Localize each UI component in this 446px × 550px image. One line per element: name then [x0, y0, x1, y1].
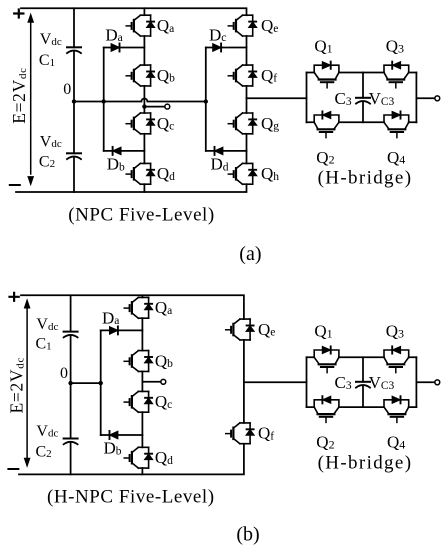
svg-text:C2: C2 — [39, 153, 55, 170]
svg-text:Qd: Qd — [155, 448, 173, 467]
wire: C2 to negative rail (a) — [73, 157, 75, 192]
junction: neutral at clamp leg 2 (a) — [204, 99, 208, 103]
minus terminal (a) — [10, 184, 20, 186]
wire: Qd to rail (a) — [143, 184, 145, 192]
svg-text:Q1: Q1 — [314, 37, 332, 56]
wire: H-bridge top row (a) — [307, 72, 417, 74]
svg-text:Q3: Q3 — [386, 322, 404, 341]
svg-text:Q2: Q2 — [316, 433, 334, 452]
wire: negative DC rail (a) — [16, 184, 247, 192]
wire: Qb to Qc (a) — [143, 86, 145, 113]
wire: bus to C1 (a) — [73, 8, 75, 47]
terminal: AC output (b) — [435, 380, 440, 385]
svg-text:Qe: Qe — [258, 320, 275, 339]
wire: neutral 0 line (b) — [71, 382, 101, 384]
transistor Q3 (b) (IGBT with antiparallel diode) — [384, 346, 409, 372]
svg-text:Qa: Qa — [157, 16, 174, 35]
wire: neutral 0 line with hop over leg (a) — [74, 99, 206, 102]
junction: neutral at capacitor midpoint (a) — [72, 99, 76, 103]
wire: H-bridge left rail (b) — [306, 357, 308, 407]
transistor Qe (b) (IGBT with antiparallel diode) — [226, 319, 255, 340]
wire: mid rail upper (a) — [362, 73, 364, 98]
transistor Qb (a) (IGBT with antiparallel diode) — [126, 65, 155, 86]
wire: H-bridge bottom row (b) — [307, 406, 417, 408]
transistor Qc (a) (IGBT with antiparallel diode) — [126, 113, 155, 134]
transistor Qd (a) (IGBT with antiparallel diode) — [126, 163, 155, 184]
H-bridge of figure (a) — [247, 37, 440, 189]
wire: input to H-bridge (a) — [247, 97, 307, 99]
svg-text:C1: C1 — [39, 52, 55, 69]
diode Da (b) — [110, 326, 118, 334]
wire: Db branch (a) — [104, 150, 145, 152]
svg-text:Qc: Qc — [157, 114, 174, 133]
wire: Qa to Qb (b) — [141, 318, 143, 350]
capacitor C2 (a) — [67, 153, 81, 159]
wire: clamp rail leg 2 (a) — [205, 48, 207, 151]
dimension arrow E=2Vdc (a) — [30, 21, 32, 174]
transistor Q1 (a) (IGBT with antiparallel diode) — [314, 62, 339, 88]
capacitor C1 (b) — [64, 332, 78, 338]
wire: Dc branch (a) — [206, 47, 247, 49]
wire: leg 1 output stub (a) — [144, 106, 165, 108]
svg-text:E=2Vdc: E=2Vdc — [9, 67, 29, 124]
svg-text:0: 0 — [60, 365, 68, 382]
capacitor C3 (a) — [356, 98, 370, 104]
svg-text:Qf: Qf — [258, 424, 274, 443]
wire: Qc to Qd (b) — [141, 412, 143, 447]
junction: neutral at clamp leg 1 (a) — [102, 99, 106, 103]
terminal: leg output (b) — [161, 379, 166, 384]
wire: Qd to rail (b) — [141, 468, 143, 474]
wire: bus to C1 (b) — [70, 295, 72, 331]
svg-text:C2: C2 — [36, 443, 52, 460]
wire: clamp rail (b) — [100, 330, 102, 435]
wire: Qf to Qg (a) — [246, 86, 248, 113]
svg-text:Qe: Qe — [261, 16, 278, 35]
wire: C2 to negative rail (b) — [70, 442, 72, 474]
wire: mid rail upper (b) — [362, 357, 364, 382]
wire: positive DC rail (b) — [21, 295, 244, 319]
svg-text:C3: C3 — [335, 373, 352, 392]
wire: H-bridge left rail (a) — [306, 73, 308, 123]
svg-text:(b): (b) — [236, 524, 259, 546]
svg-text:Vdc: Vdc — [40, 133, 62, 150]
svg-text:0: 0 — [63, 81, 71, 98]
figure (a): NPC Five-Level inverter with H-bridge — [9, 8, 279, 265]
svg-text:Q1: Q1 — [314, 322, 332, 341]
wire: H-bridge right rail (a) — [415, 73, 417, 123]
svg-text:Qc: Qc — [155, 392, 172, 411]
transistor Qf (b) (IGBT with antiparallel diode) — [226, 423, 255, 444]
wire: positive DC rail (a) — [21, 8, 247, 15]
transistor Qc (b) (IGBT with antiparallel diode) — [124, 391, 153, 412]
wire: Qb to Qc (b) — [141, 371, 143, 391]
wire: Qe to Qf (a) — [246, 36, 248, 65]
junction: neutral at clamp rail (b) — [99, 381, 103, 385]
transistor Q4 (a) (IGBT with antiparallel diode) — [384, 111, 409, 137]
svg-text:Qb: Qb — [157, 66, 175, 85]
wire: mid rail lower (a) — [362, 102, 364, 123]
wire: C1 to C2 (b) — [70, 335, 72, 438]
figure (b): H-NPC Five-Level inverter with H-bridge — [7, 293, 276, 546]
svg-text:VC3: VC3 — [369, 373, 395, 392]
transistor Qh (a) (IGBT with antiparallel diode) — [228, 163, 256, 184]
svg-text:E=2Vdc: E=2Vdc — [7, 357, 27, 414]
transistor Qg (a) (IGBT with antiparallel diode) — [228, 113, 256, 134]
svg-text:(H-bridge): (H-bridge) — [318, 168, 413, 189]
wire: H-bridge right rail (b) — [415, 357, 417, 407]
transistor Q4 (b) (IGBT with antiparallel diode) — [384, 396, 409, 422]
svg-text:Da: Da — [105, 25, 122, 44]
svg-text:Vdc: Vdc — [36, 423, 58, 440]
svg-text:Dc: Dc — [209, 25, 226, 44]
svg-text:Qd: Qd — [157, 164, 175, 183]
wire: Qg to Qh (a) — [246, 134, 248, 164]
svg-text:Qa: Qa — [155, 298, 172, 317]
wire: rail to Qa (a) — [143, 8, 145, 15]
wire: Qc to Qd (a) — [143, 134, 145, 164]
wire: leg output stub (b) — [142, 381, 161, 383]
wire: H-bridge bottom row (a) — [307, 121, 417, 123]
diode Db (a) — [113, 147, 121, 155]
wire: H-bridge output (b) — [416, 381, 435, 383]
wire: Da branch (b) — [101, 329, 143, 331]
transistor Qd (b) (IGBT with antiparallel diode) — [124, 447, 153, 468]
transistor Qa (b) (IGBT with antiparallel diode) — [124, 297, 153, 318]
terminal: leg 1 output (a) — [165, 104, 170, 109]
wire: Qe to Qf (b) — [243, 340, 245, 423]
wire: Db branch (b) — [101, 434, 143, 436]
svg-text:Dd: Dd — [211, 155, 229, 174]
svg-text:Vdc: Vdc — [36, 316, 58, 333]
svg-text:Db: Db — [107, 155, 125, 174]
svg-text:Q4: Q4 — [387, 148, 405, 167]
capacitor C2 (b) — [64, 439, 78, 445]
svg-text:C3: C3 — [335, 89, 352, 108]
capacitor C3 (b) — [356, 382, 370, 388]
svg-text:(NPC Five-Level): (NPC Five-Level) — [68, 205, 215, 226]
wire: negative DC rail (b) — [19, 444, 244, 475]
svg-text:Db: Db — [104, 439, 122, 458]
transistor Qa (a) (IGBT with antiparallel diode) — [126, 15, 155, 36]
wire: Da branch (a) — [104, 47, 145, 49]
transistor Qf (a) (IGBT with antiparallel diode) — [228, 65, 256, 86]
transistor Q1 (b) (IGBT with antiparallel diode) — [314, 346, 339, 372]
wire: input to H-bridge (b) — [244, 381, 307, 383]
terminal: AC output (a) — [435, 96, 440, 101]
diode Da (a) — [111, 44, 119, 52]
svg-text:Q3: Q3 — [386, 37, 404, 56]
plus terminal (a) — [14, 10, 23, 18]
svg-text:Q2: Q2 — [316, 148, 334, 167]
capacitor C1 (a) — [67, 47, 81, 53]
wire: rail to Qa (b) — [141, 295, 143, 297]
transistor Q2 (a) (IGBT with antiparallel diode) — [314, 111, 339, 137]
wire: clamp rail leg 1 (a) — [103, 48, 105, 151]
svg-text:Qg: Qg — [261, 114, 279, 133]
dimension arrow E=2Vdc (b) — [26, 307, 28, 460]
svg-text:Da: Da — [102, 308, 119, 327]
svg-text:Q4: Q4 — [387, 433, 405, 452]
H-bridge of figure (b) — [244, 322, 440, 474]
transistor Q3 (a) (IGBT with antiparallel diode) — [384, 62, 409, 88]
svg-text:Qb: Qb — [155, 351, 173, 370]
transistor Qb (b) (IGBT with antiparallel diode) — [124, 351, 153, 372]
svg-text:Qf: Qf — [261, 66, 277, 85]
wire: mid rail lower (b) — [362, 386, 364, 408]
wire: H-bridge top row (b) — [307, 356, 417, 358]
svg-text:Qh: Qh — [261, 164, 279, 183]
transistor Q2 (b) (IGBT with antiparallel diode) — [314, 396, 339, 422]
junction: leg 1 output node (a) — [142, 104, 146, 108]
svg-text:VC3: VC3 — [369, 89, 395, 108]
svg-text:(H-NPC Five-Level): (H-NPC Five-Level) — [47, 486, 215, 507]
wire: C1 to C2 (a) — [73, 51, 75, 153]
plus terminal (b) — [10, 293, 19, 301]
svg-text:C1: C1 — [36, 336, 52, 353]
diode Dc (a) — [213, 44, 221, 52]
transistor Qe (a) (IGBT with antiparallel diode) — [228, 15, 256, 36]
diode Db (b) — [110, 431, 118, 439]
diode Dd (a) — [215, 147, 223, 155]
svg-text:(H-bridge): (H-bridge) — [318, 453, 413, 474]
wire: Qa to Qb (a) — [143, 36, 145, 65]
svg-text:(a): (a) — [239, 243, 261, 265]
junction: neutral at capacitor midpoint (b) — [68, 381, 72, 385]
svg-text:Vdc: Vdc — [40, 31, 62, 48]
wire: Dd branch (a) — [206, 150, 247, 152]
minus terminal (b) — [8, 468, 18, 470]
wire: H-bridge output (a) — [416, 97, 435, 99]
